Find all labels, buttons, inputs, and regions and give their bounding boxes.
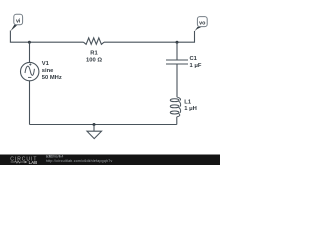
R1 labels	[86, 50, 102, 63]
wire vi corner to rail	[10, 31, 83, 43]
resistor R1	[84, 38, 105, 44]
svg-text:ladltd.fma / lk.4: ladltd.fma / lk.4	[46, 154, 64, 158]
wire rail resistor to vo corner	[104, 31, 195, 42]
voltage source V1	[21, 62, 39, 80]
ground junction dot	[93, 123, 96, 126]
node flag vo	[194, 17, 207, 32]
svg-text:C1: C1	[190, 56, 198, 62]
svg-text:sine: sine	[42, 68, 54, 74]
wire rail to V1	[29, 42, 31, 62]
capacitor C1	[166, 42, 188, 97]
wire L1 to bottom rail	[176, 117, 178, 125]
svg-text:http://circuitlab.com/c6dkhlef: http://circuitlab.com/c6dkhlefapgqh7v	[46, 159, 113, 163]
svg-text:1 μF: 1 μF	[190, 63, 202, 69]
node flag vi	[11, 14, 23, 31]
bottom rail wire	[30, 124, 177, 126]
wire V1 to bottom rail	[29, 81, 31, 125]
V1 labels	[42, 61, 62, 81]
svg-text:100 Ω: 100 Ω	[86, 58, 102, 64]
ground	[87, 125, 102, 139]
svg-text:vo: vo	[199, 21, 206, 27]
svg-text:L1: L1	[184, 99, 192, 105]
L1 labels	[184, 99, 197, 112]
footer text	[46, 154, 113, 163]
node B junction dot	[176, 41, 179, 44]
C1 labels	[190, 56, 202, 69]
svg-text:R1: R1	[90, 50, 98, 56]
inductor L1	[170, 97, 180, 117]
svg-text:50 MHz: 50 MHz	[42, 75, 62, 81]
footer bar	[0, 155, 220, 166]
svg-text:vi: vi	[16, 19, 21, 25]
svg-text:1 μH: 1 μH	[184, 106, 197, 112]
footer logo CIRCUIT LAB	[10, 156, 37, 164]
svg-text:V1: V1	[42, 61, 50, 67]
svg-text:LAB: LAB	[29, 160, 38, 165]
node A junction dot	[28, 41, 31, 44]
